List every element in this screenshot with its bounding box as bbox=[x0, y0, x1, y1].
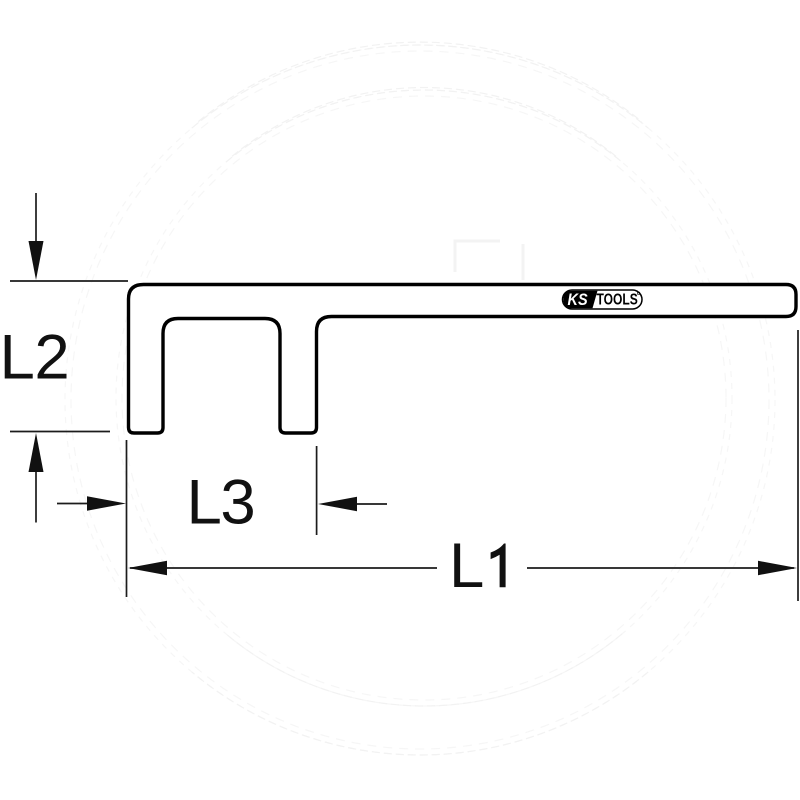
svg-text:L2: L2 bbox=[0, 322, 69, 392]
svg-text:L3: L3 bbox=[187, 467, 255, 537]
svg-text:KS: KS bbox=[568, 291, 589, 309]
svg-text:TOOLS: TOOLS bbox=[597, 290, 638, 308]
svg-text:L: L bbox=[449, 531, 484, 601]
